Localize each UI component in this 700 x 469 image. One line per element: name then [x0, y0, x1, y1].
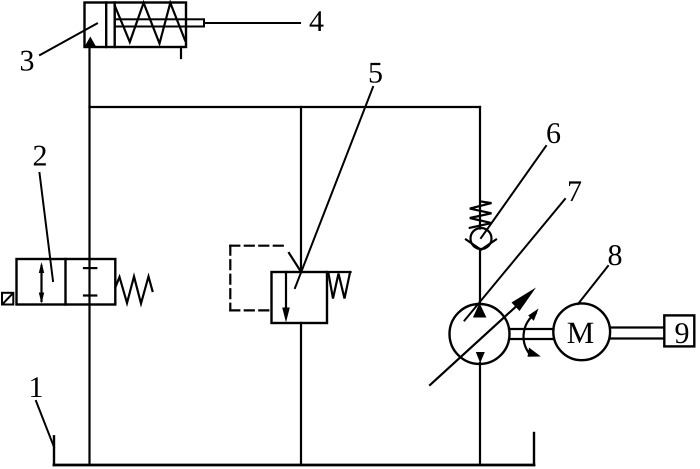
- wire: check valve to pump: [479, 250, 481, 304]
- valve 2 pilot box: [2, 293, 13, 305]
- label 1 leader: [36, 401, 54, 447]
- relief valve 5 box: [272, 272, 328, 323]
- label 4: [310, 11, 324, 31]
- cylinder drain port stub: [180, 47, 182, 58]
- relief valve spring: [327, 271, 351, 273]
- label 7 leader: [465, 199, 566, 321]
- label 8: [609, 245, 622, 265]
- label 2: [34, 146, 46, 166]
- pilot dashed line left vertical: [229, 246, 231, 311]
- pump bottom triangle (delivery): [476, 352, 485, 363]
- valve 2 double arrow (left cell): [40, 266, 42, 301]
- wire: pump outlet to tank: [479, 363, 481, 465]
- valve 2 blocked port ticks (right cell): [84, 267, 96, 269]
- relief valve flow line and arrow: [285, 272, 287, 309]
- tank right wall: [533, 433, 535, 465]
- tank left wall: [53, 436, 55, 465]
- pump top triangle (suction): [473, 303, 487, 318]
- motor M text: [568, 323, 594, 343]
- label 7: [569, 181, 581, 201]
- valve 2 spring: [115, 277, 152, 304]
- valve 2 box: [17, 259, 116, 305]
- wire: middle branch upper (manifold to relief valve): [300, 107, 302, 272]
- spring inside cylinder: [115, 3, 185, 44]
- pilot dashed line bottom horizontal: [230, 309, 271, 311]
- wire: left main vertical line from cylinder to tank: [88, 47, 90, 465]
- rotation double arrow: [524, 314, 536, 354]
- cylinder 3 body: [85, 3, 187, 48]
- check valve 6 seat: [466, 240, 496, 250]
- label 9: [675, 323, 688, 343]
- wire: middle branch lower (relief valve to tank): [300, 323, 302, 465]
- label 5 leader: [295, 87, 373, 288]
- label 6 leader: [481, 146, 546, 238]
- wire: right branch upper (manifold to check valve): [479, 107, 481, 229]
- pump-motor shaft: [509, 328, 554, 330]
- label 6: [547, 123, 560, 143]
- valve 2 divider: [64, 259, 66, 305]
- piston rod: [115, 19, 204, 26]
- label 2 leader: [40, 173, 54, 281]
- motor to load shaft: [610, 326, 664, 328]
- wire: horizontal manifold: [90, 106, 481, 108]
- piston (double line): [105, 3, 107, 48]
- label 8 leader: [578, 266, 608, 304]
- variable displacement arrow: [430, 307, 516, 386]
- motor 8 circle: [553, 303, 610, 360]
- label 1: [31, 377, 42, 397]
- pilot dashed line top horizontal: [230, 245, 287, 247]
- load 9 box: [664, 315, 694, 346]
- check valve 6 spring: [470, 202, 492, 228]
- check valve 6 ball: [471, 228, 492, 249]
- arrow into cylinder bottom port: [85, 37, 96, 47]
- label 4 leader: [204, 22, 300, 24]
- pump 7 circle: [450, 304, 510, 364]
- label 3 leader: [40, 24, 97, 56]
- pilot connection diagonal: [289, 253, 301, 271]
- tank bottom line: [54, 464, 534, 467]
- label 5: [370, 63, 382, 83]
- label 3: [21, 51, 33, 71]
